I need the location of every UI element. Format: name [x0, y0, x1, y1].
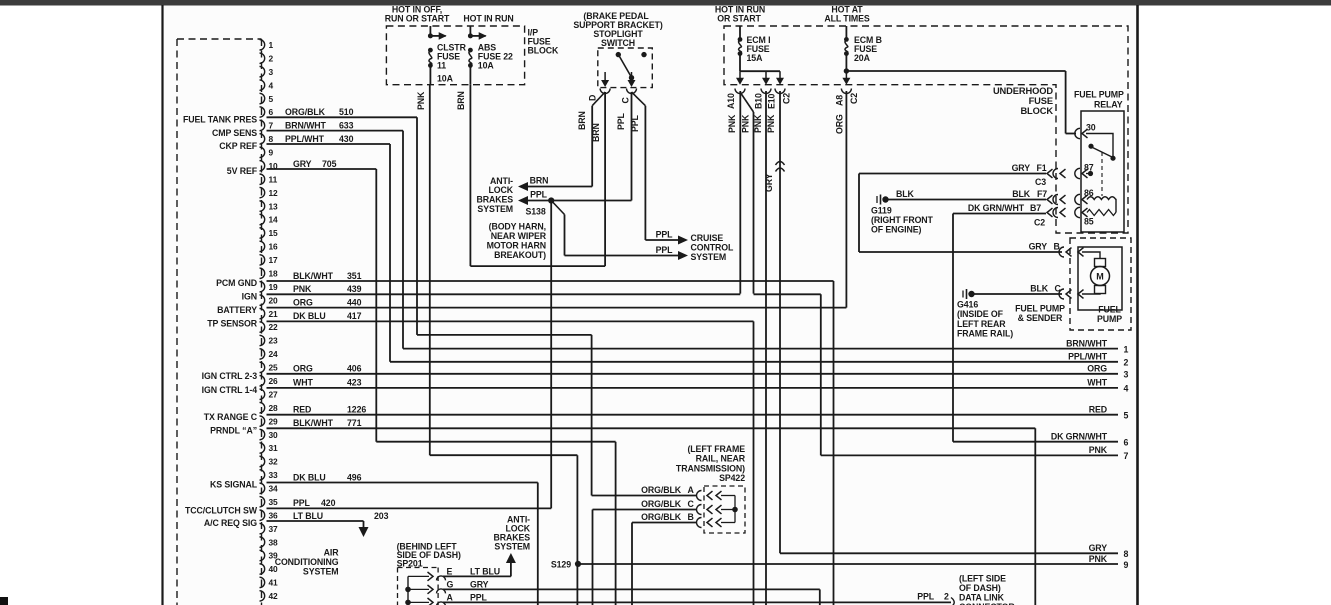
svg-text:ORG: ORG: [293, 297, 313, 307]
svg-text:25: 25: [269, 363, 279, 373]
svg-text:FUSE: FUSE: [1029, 96, 1053, 106]
svg-text:32: 32: [269, 457, 279, 467]
svg-text:417: 417: [347, 311, 362, 321]
svg-text:B: B: [688, 512, 694, 522]
svg-text:PUMP: PUMP: [1097, 314, 1122, 324]
svg-text:PPL: PPL: [530, 189, 548, 199]
svg-text:RELAY: RELAY: [1094, 100, 1123, 110]
svg-text:PPL: PPL: [656, 230, 674, 240]
svg-text:BREAKOUT): BREAKOUT): [494, 250, 546, 260]
svg-text:D: D: [588, 95, 598, 101]
svg-text:420: 420: [321, 498, 336, 508]
svg-text:13: 13: [269, 201, 279, 211]
svg-text:21: 21: [269, 309, 279, 319]
svg-text:BLK: BLK: [1012, 189, 1031, 199]
svg-text:G416: G416: [957, 300, 978, 310]
svg-text:NEAR WIPER: NEAR WIPER: [491, 231, 547, 241]
svg-text:GRY: GRY: [293, 159, 312, 169]
svg-text:PRNDL “A”: PRNDL “A”: [210, 426, 257, 436]
svg-text:8: 8: [1124, 549, 1129, 559]
svg-text:771: 771: [347, 418, 362, 428]
svg-text:27: 27: [269, 389, 279, 399]
svg-text:TX RANGE C: TX RANGE C: [204, 412, 258, 422]
svg-text:F1: F1: [1037, 163, 1047, 173]
svg-text:(LEFT SIDE: (LEFT SIDE: [959, 574, 1006, 584]
svg-text:16: 16: [269, 242, 279, 252]
svg-text:9: 9: [1124, 560, 1129, 570]
svg-text:FUEL PUMP: FUEL PUMP: [1074, 90, 1124, 100]
svg-text:PPL: PPL: [656, 245, 674, 255]
svg-text:705: 705: [322, 159, 337, 169]
svg-text:CONTROL: CONTROL: [691, 242, 735, 252]
svg-text:C: C: [621, 97, 631, 104]
svg-text:M: M: [1096, 272, 1103, 282]
svg-text:UNDERHOOD: UNDERHOOD: [993, 86, 1053, 96]
svg-text:PNK: PNK: [293, 284, 312, 294]
svg-text:20: 20: [269, 295, 279, 305]
svg-text:3: 3: [269, 67, 274, 77]
svg-text:PPL: PPL: [293, 498, 311, 508]
svg-text:DK GRN/WHT: DK GRN/WHT: [968, 203, 1025, 213]
svg-text:351: 351: [347, 271, 362, 281]
svg-text:11: 11: [437, 60, 446, 70]
svg-text:OF DASH): OF DASH): [959, 583, 1001, 593]
svg-text:PPL: PPL: [470, 592, 488, 602]
svg-text:DATA LINK: DATA LINK: [959, 593, 1005, 603]
svg-text:FUEL PUMP: FUEL PUMP: [1015, 304, 1065, 314]
svg-text:BRN/WHT: BRN/WHT: [285, 120, 327, 130]
svg-text:PNK: PNK: [727, 114, 737, 133]
svg-text:DK BLU: DK BLU: [293, 311, 326, 321]
svg-text:5: 5: [269, 94, 274, 104]
svg-text:4: 4: [1124, 384, 1129, 394]
svg-text:BLK/WHT: BLK/WHT: [293, 418, 334, 428]
svg-text:IGN CTRL 1-4: IGN CTRL 1-4: [202, 385, 258, 395]
svg-text:E: E: [447, 566, 453, 576]
svg-text:ORG: ORG: [293, 364, 313, 374]
svg-text:7: 7: [1124, 451, 1129, 461]
svg-text:PPL: PPL: [630, 114, 640, 132]
svg-text:14: 14: [269, 215, 279, 225]
svg-text:S138: S138: [526, 207, 546, 217]
svg-text:20A: 20A: [854, 53, 871, 63]
svg-text:C3: C3: [1035, 177, 1046, 187]
svg-text:KS SIGNAL: KS SIGNAL: [210, 480, 258, 490]
svg-text:ORG: ORG: [835, 114, 845, 134]
svg-text:15A: 15A: [747, 53, 764, 63]
svg-text:36: 36: [269, 510, 279, 520]
svg-text:G119: G119: [871, 205, 892, 215]
svg-text:FUEL: FUEL: [1098, 305, 1121, 315]
svg-text:HOT IN RUN: HOT IN RUN: [463, 14, 513, 24]
svg-text:2: 2: [269, 53, 274, 63]
svg-text:633: 633: [339, 120, 354, 130]
svg-text:1: 1: [1124, 344, 1129, 354]
svg-text:24: 24: [269, 349, 279, 359]
svg-text:PNK: PNK: [1089, 554, 1108, 564]
svg-text:BLK: BLK: [1030, 283, 1049, 293]
svg-text:PPL: PPL: [616, 112, 626, 130]
svg-text:RED: RED: [293, 405, 311, 415]
svg-text:ORG/BLK: ORG/BLK: [285, 107, 326, 117]
svg-text:TRANSMISSION): TRANSMISSION): [676, 463, 745, 473]
svg-text:ORG: ORG: [1087, 364, 1107, 374]
svg-text:A8: A8: [835, 95, 845, 106]
svg-text:WHT: WHT: [1087, 378, 1107, 388]
svg-text:6: 6: [1124, 438, 1129, 448]
svg-text:LEFT REAR: LEFT REAR: [957, 319, 1006, 329]
svg-text:& SENDER: & SENDER: [1018, 313, 1063, 323]
svg-text:8: 8: [269, 134, 274, 144]
svg-text:RUN OR START: RUN OR START: [385, 14, 450, 24]
svg-text:85: 85: [1084, 217, 1094, 227]
svg-text:PCM GND: PCM GND: [216, 278, 257, 288]
svg-text:7: 7: [269, 121, 274, 131]
svg-text:ORG/BLK: ORG/BLK: [641, 485, 682, 495]
svg-text:TP SENSOR: TP SENSOR: [207, 319, 258, 329]
svg-text:22: 22: [269, 322, 279, 332]
svg-text:37: 37: [269, 524, 279, 534]
svg-text:PPL: PPL: [917, 592, 935, 602]
svg-text:C2: C2: [1034, 217, 1045, 227]
svg-text:26: 26: [269, 376, 279, 386]
svg-text:PPL/WHT: PPL/WHT: [285, 134, 325, 144]
svg-text:S129: S129: [551, 559, 571, 569]
svg-text:(INSIDE OF: (INSIDE OF: [957, 309, 1004, 319]
svg-text:18: 18: [269, 268, 279, 278]
svg-text:30: 30: [269, 430, 279, 440]
svg-text:BRN: BRN: [456, 91, 466, 110]
svg-text:B10: B10: [754, 93, 764, 109]
svg-text:AIR: AIR: [324, 548, 340, 558]
svg-text:29: 29: [269, 416, 279, 426]
svg-text:1226: 1226: [347, 405, 366, 415]
svg-text:CRUISE: CRUISE: [691, 233, 724, 243]
svg-text:430: 430: [339, 134, 354, 144]
svg-text:RED: RED: [1089, 405, 1107, 415]
svg-text:10A: 10A: [437, 74, 454, 84]
svg-text:6: 6: [269, 107, 274, 117]
svg-text:SYSTEM: SYSTEM: [494, 542, 530, 552]
svg-text:1: 1: [269, 40, 274, 50]
svg-text:CONDITIONING: CONDITIONING: [275, 557, 339, 567]
svg-text:PNK: PNK: [766, 114, 776, 133]
svg-text:SYSTEM: SYSTEM: [477, 204, 513, 214]
svg-text:A: A: [688, 485, 695, 495]
svg-text:5V REF: 5V REF: [227, 166, 258, 176]
svg-text:23: 23: [269, 336, 279, 346]
svg-text:510: 510: [339, 107, 354, 117]
svg-text:LT BLU: LT BLU: [470, 566, 500, 576]
svg-text:4: 4: [269, 80, 274, 90]
svg-text:440: 440: [347, 297, 362, 307]
svg-text:A/C REQ SIG: A/C REQ SIG: [204, 518, 257, 528]
svg-text:SP422: SP422: [719, 473, 745, 483]
svg-text:C2: C2: [849, 93, 859, 104]
svg-text:35: 35: [269, 497, 279, 507]
svg-text:GRY: GRY: [1029, 241, 1048, 251]
svg-text:WHT: WHT: [293, 378, 313, 388]
svg-text:C: C: [1055, 283, 1062, 293]
svg-text:CMP SENS: CMP SENS: [212, 128, 257, 138]
svg-text:3: 3: [1124, 370, 1129, 380]
svg-text:BLOCK: BLOCK: [1020, 106, 1053, 116]
svg-text:A10: A10: [726, 93, 736, 109]
svg-text:GRY: GRY: [764, 173, 774, 192]
svg-text:FUEL TANK PRES: FUEL TANK PRES: [183, 115, 257, 125]
svg-text:G: G: [447, 579, 454, 589]
svg-text:406: 406: [347, 364, 362, 374]
svg-text:10A: 10A: [478, 60, 495, 70]
svg-text:BLK: BLK: [896, 189, 915, 199]
svg-text:IGN: IGN: [242, 292, 257, 302]
svg-text:IGN CTRL 2-3: IGN CTRL 2-3: [202, 371, 258, 381]
svg-text:30: 30: [1086, 123, 1096, 133]
svg-text:(BODY HARN,: (BODY HARN,: [489, 222, 546, 232]
svg-text:FRAME RAIL): FRAME RAIL): [957, 329, 1013, 339]
svg-text:BLK/WHT: BLK/WHT: [293, 271, 334, 281]
svg-text:SYSTEM: SYSTEM: [691, 252, 727, 262]
svg-text:OR START: OR START: [717, 14, 761, 24]
svg-text:203: 203: [374, 511, 389, 521]
svg-text:GRY: GRY: [470, 579, 489, 589]
svg-text:19: 19: [269, 282, 279, 292]
svg-text:F7: F7: [1037, 189, 1047, 199]
svg-text:PNK: PNK: [753, 114, 763, 133]
svg-text:TCC/CLUTCH SW: TCC/CLUTCH SW: [185, 506, 258, 516]
svg-text:ORG/BLK: ORG/BLK: [641, 499, 682, 509]
svg-text:9: 9: [269, 148, 274, 158]
svg-text:B: B: [1054, 241, 1060, 251]
svg-text:MOTOR HARN: MOTOR HARN: [487, 241, 546, 251]
svg-text:439: 439: [347, 284, 362, 294]
svg-text:12: 12: [269, 188, 279, 198]
svg-text:(LEFT FRAME: (LEFT FRAME: [687, 444, 745, 454]
svg-text:17: 17: [269, 255, 279, 265]
svg-text:31: 31: [269, 443, 279, 453]
svg-text:423: 423: [347, 378, 362, 388]
svg-text:B7: B7: [1030, 203, 1041, 213]
svg-text:PNK: PNK: [1089, 445, 1108, 455]
svg-text:ALL TIMES: ALL TIMES: [824, 14, 870, 24]
svg-text:5: 5: [1124, 411, 1129, 421]
svg-text:BATTERY: BATTERY: [217, 305, 257, 315]
svg-text:PNK: PNK: [741, 114, 751, 133]
svg-text:38: 38: [269, 537, 279, 547]
svg-text:41: 41: [269, 578, 279, 588]
svg-text:BRN: BRN: [530, 176, 549, 186]
svg-text:BRN: BRN: [577, 111, 587, 130]
svg-text:34: 34: [269, 484, 279, 494]
svg-text:ORG/BLK: ORG/BLK: [641, 512, 682, 522]
svg-text:DK BLU: DK BLU: [293, 472, 326, 482]
svg-text:42: 42: [269, 591, 279, 601]
svg-text:A: A: [447, 592, 454, 602]
svg-text:C2: C2: [782, 93, 792, 104]
svg-text:BLOCK: BLOCK: [528, 46, 560, 56]
svg-text:OF ENGINE): OF ENGINE): [871, 225, 921, 235]
svg-text:BRN/WHT: BRN/WHT: [1066, 338, 1108, 348]
svg-text:CKP REF: CKP REF: [219, 141, 257, 151]
svg-text:496: 496: [347, 472, 362, 482]
svg-text:15: 15: [269, 228, 279, 238]
svg-text:LT BLU: LT BLU: [293, 511, 323, 521]
svg-text:28: 28: [269, 403, 279, 413]
svg-text:33: 33: [269, 470, 279, 480]
svg-text:PNK: PNK: [416, 91, 426, 110]
svg-text:RAIL, NEAR: RAIL, NEAR: [696, 454, 746, 464]
svg-text:(RIGHT FRONT: (RIGHT FRONT: [871, 215, 934, 225]
svg-text:SWITCH: SWITCH: [601, 38, 635, 48]
svg-text:2: 2: [944, 592, 949, 602]
svg-text:C: C: [688, 499, 695, 509]
svg-text:SYSTEM: SYSTEM: [303, 567, 339, 577]
svg-text:11: 11: [269, 174, 278, 184]
svg-text:BRN: BRN: [591, 123, 601, 142]
svg-text:PPL/WHT: PPL/WHT: [1068, 352, 1108, 362]
svg-text:GRY: GRY: [1012, 163, 1031, 173]
svg-text:DK GRN/WHT: DK GRN/WHT: [1051, 432, 1108, 442]
svg-text:2: 2: [1124, 358, 1129, 368]
svg-text:GRY: GRY: [1089, 543, 1108, 553]
svg-text:E10: E10: [767, 93, 777, 109]
